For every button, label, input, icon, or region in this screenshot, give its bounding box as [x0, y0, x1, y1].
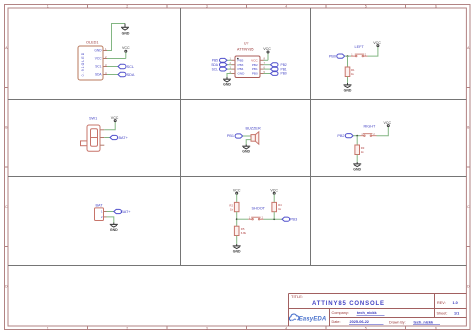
svg-text:VCC: VCC — [263, 47, 271, 51]
svg-text:LEFT: LEFT — [355, 45, 365, 49]
svg-text:VCC: VCC — [111, 116, 119, 120]
svg-text:GND: GND — [344, 88, 352, 92]
svg-text:PB1: PB1 — [227, 134, 234, 138]
svg-text:VCC: VCC — [251, 58, 258, 62]
svg-text:3: 3 — [206, 326, 208, 330]
svg-text:1/1: 1/1 — [454, 312, 459, 316]
svg-text:SDA: SDA — [211, 63, 219, 67]
svg-text:GND: GND — [223, 83, 231, 87]
svg-text:3: 3 — [206, 4, 208, 8]
svg-text:2025-06-22: 2025-06-22 — [350, 320, 369, 324]
svg-text:6: 6 — [435, 326, 437, 330]
svg-text:GND: GND — [122, 31, 130, 35]
svg-text:ATTINY85 CONSOLE: ATTINY85 CONSOLE — [312, 301, 385, 307]
svg-text:RIGHT: RIGHT — [364, 125, 376, 129]
svg-text:BAT: BAT — [96, 203, 104, 207]
svg-text:PB0: PB0 — [329, 54, 336, 58]
svg-text:1: 1 — [47, 4, 49, 8]
svg-text:GND: GND — [353, 167, 361, 171]
svg-text:VCC: VCC — [384, 121, 392, 125]
svg-text:PB3: PB3 — [290, 218, 297, 222]
svg-text:Date:: Date: — [332, 320, 341, 324]
svg-text:GND: GND — [242, 150, 250, 154]
svg-text:5: 5 — [365, 4, 367, 8]
svg-text:BAT+: BAT+ — [119, 136, 129, 140]
svg-text:PB0: PB0 — [252, 72, 258, 76]
svg-text:6: 6 — [435, 4, 437, 8]
svg-text:PB3: PB3 — [238, 63, 244, 67]
svg-text:VCC: VCC — [95, 57, 102, 61]
svg-text:4: 4 — [285, 4, 287, 8]
svg-text:0.91OLED: 0.91OLED — [81, 52, 85, 77]
svg-text:1.0: 1.0 — [453, 301, 458, 305]
svg-text:PB0: PB0 — [281, 72, 287, 76]
svg-text:Sheet:: Sheet: — [437, 312, 448, 316]
svg-text:GND: GND — [233, 249, 241, 253]
svg-text:Company:: Company: — [332, 311, 349, 315]
svg-text:tech_nickk: tech_nickk — [414, 320, 435, 324]
svg-text:EasyEDA: EasyEDA — [299, 316, 327, 323]
svg-text:6.8k: 6.8k — [241, 231, 247, 235]
svg-text:PB5: PB5 — [212, 59, 218, 63]
svg-text:PB4: PB4 — [238, 67, 244, 71]
svg-text:PB2: PB2 — [337, 134, 344, 138]
svg-text:PB1: PB1 — [281, 67, 287, 71]
svg-text:SCL: SCL — [95, 65, 101, 69]
svg-text:PB5: PB5 — [238, 58, 244, 62]
svg-text:SDA: SDA — [95, 73, 102, 77]
svg-text:PB2: PB2 — [281, 63, 287, 67]
svg-text:REV:: REV: — [437, 301, 446, 305]
svg-text:BUZZER: BUZZER — [246, 126, 261, 130]
svg-text:TITLE:: TITLE: — [291, 294, 303, 299]
svg-text:PB1: PB1 — [252, 67, 258, 71]
svg-text:SCL: SCL — [127, 65, 134, 69]
svg-text:VCC: VCC — [122, 46, 130, 50]
svg-text:5: 5 — [365, 326, 367, 330]
svg-text:GND: GND — [94, 49, 102, 53]
svg-text:SHOOT: SHOOT — [252, 206, 266, 210]
svg-text:2: 2 — [126, 4, 128, 8]
svg-text:GND: GND — [110, 228, 118, 232]
svg-text:SDA: SDA — [127, 73, 135, 77]
svg-text:PB2: PB2 — [252, 63, 258, 67]
svg-text:VCC: VCC — [373, 41, 381, 45]
svg-text:Drawn By:: Drawn By: — [389, 320, 406, 324]
svg-text:U?: U? — [244, 42, 248, 46]
svg-text:tech_nickk: tech_nickk — [357, 311, 378, 315]
svg-text:BAT+: BAT+ — [121, 210, 131, 214]
svg-text:ATTINY85: ATTINY85 — [237, 47, 254, 51]
svg-text:4: 4 — [285, 326, 287, 330]
svg-text:SW1: SW1 — [89, 117, 97, 121]
svg-text:2: 2 — [126, 326, 128, 330]
svg-text:GND: GND — [238, 72, 246, 76]
svg-text:OLED1: OLED1 — [86, 41, 98, 45]
svg-text:SCL: SCL — [212, 67, 219, 71]
svg-text:1: 1 — [47, 326, 49, 330]
